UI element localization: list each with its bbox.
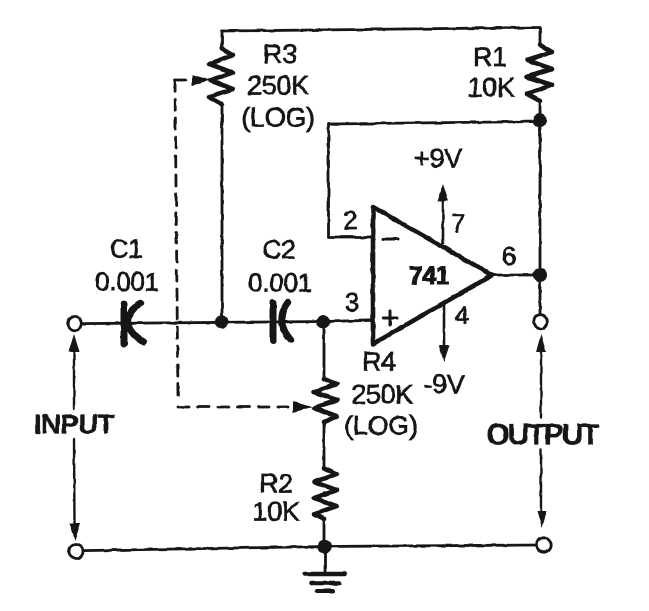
potentiometer R4: [314, 379, 337, 422]
wire input mid line: [81, 320, 373, 323]
label pin 4: [455, 300, 469, 330]
label INPUT: [34, 409, 115, 440]
label R1: [473, 42, 507, 72]
label +9V: [414, 144, 462, 174]
label R4 taper: [344, 411, 418, 441]
label C1: [110, 234, 143, 264]
op-amp U1 triangle: [373, 207, 492, 344]
ground: [305, 546, 345, 591]
svg-text:OUTPUT: OUTPUT: [486, 419, 599, 452]
svg-text:3: 3: [345, 287, 359, 317]
wire R4 to R2: [323, 422, 326, 468]
terminal input bottom: [69, 545, 83, 559]
wire R1 bottom lead: [539, 101, 542, 120]
label pin 3: [345, 287, 359, 317]
label pin 6: [502, 241, 516, 271]
svg-text:(LOG): (LOG): [344, 411, 418, 441]
output measure arrow: [536, 334, 547, 528]
svg-text:C2: C2: [263, 235, 296, 265]
svg-text:10K: 10K: [467, 73, 514, 103]
wire R3 top lead: [221, 31, 224, 47]
label R1 value: [467, 73, 514, 103]
label C1 value: [95, 267, 159, 297]
svg-text:R2: R2: [259, 469, 293, 499]
svg-text:250K: 250K: [351, 380, 413, 410]
terminal output top: [534, 315, 548, 329]
resistor R3: [209, 49, 234, 105]
label R3: [263, 39, 297, 69]
svg-text:6: 6: [502, 241, 516, 271]
terminal input top: [68, 317, 82, 331]
wire R4 top lead: [323, 321, 326, 379]
wire ganged dashed link: [175, 75, 313, 413]
wire R2 bottom lead: [323, 519, 326, 546]
label R4 value: [351, 380, 413, 410]
resistor R2: [314, 468, 337, 519]
svg-text:R3: R3: [263, 39, 297, 69]
node ground junction: [318, 540, 332, 554]
svg-text:2: 2: [343, 205, 357, 235]
terminal output bottom: [537, 538, 551, 552]
svg-text:R4: R4: [362, 347, 396, 377]
wire feedback to pin 2: [329, 122, 541, 238]
label R2 value: [252, 497, 299, 527]
label C2: [263, 235, 296, 265]
node pin 3 junction: [317, 315, 330, 328]
wire R3 bottom lead: [221, 105, 224, 322]
label -9V: [423, 370, 464, 400]
node feedback junction: [533, 113, 547, 127]
wire output vertical rail: [539, 120, 542, 316]
resistor R1: [527, 45, 552, 101]
wire R1 top lead: [539, 28, 542, 45]
capacitor C2: [273, 302, 291, 341]
svg-text:250K: 250K: [247, 71, 309, 101]
label R3 value: [247, 71, 309, 101]
wire op-amp output pin 6: [492, 274, 534, 277]
op-amp minus sign: [383, 238, 398, 241]
svg-text:R1: R1: [473, 42, 507, 72]
input measure arrow: [69, 334, 81, 541]
label R2: [259, 469, 293, 499]
label OUTPUT: [486, 419, 599, 452]
label R4: [362, 347, 396, 377]
wire top rail: [222, 28, 540, 32]
svg-text:0.001: 0.001: [95, 267, 159, 297]
wire +9V arrow pin 7: [438, 184, 449, 243]
label pin 2: [343, 205, 357, 235]
svg-text:(LOG): (LOG): [241, 103, 315, 133]
label pin 7: [451, 208, 465, 238]
label 741: [409, 262, 450, 290]
svg-text:-9V: -9V: [423, 370, 464, 400]
wire -9V arrow pin 4: [439, 304, 450, 362]
svg-text:INPUT: INPUT: [34, 409, 115, 440]
svg-text:C1: C1: [110, 234, 143, 264]
label R3 taper: [241, 103, 315, 133]
label C2 value: [248, 268, 312, 298]
svg-text:0.001: 0.001: [248, 268, 312, 298]
svg-text:7: 7: [451, 208, 465, 238]
node R3 bottom junction: [216, 315, 229, 328]
wire bottom rail: [83, 545, 537, 551]
svg-text:+9V: +9V: [414, 144, 462, 174]
op-amp plus sign: [383, 311, 397, 325]
capacitor C1: [124, 303, 144, 344]
svg-text:741: 741: [409, 262, 450, 290]
node output junction: [533, 268, 547, 282]
svg-text:4: 4: [455, 300, 469, 330]
svg-text:10K: 10K: [252, 497, 299, 527]
